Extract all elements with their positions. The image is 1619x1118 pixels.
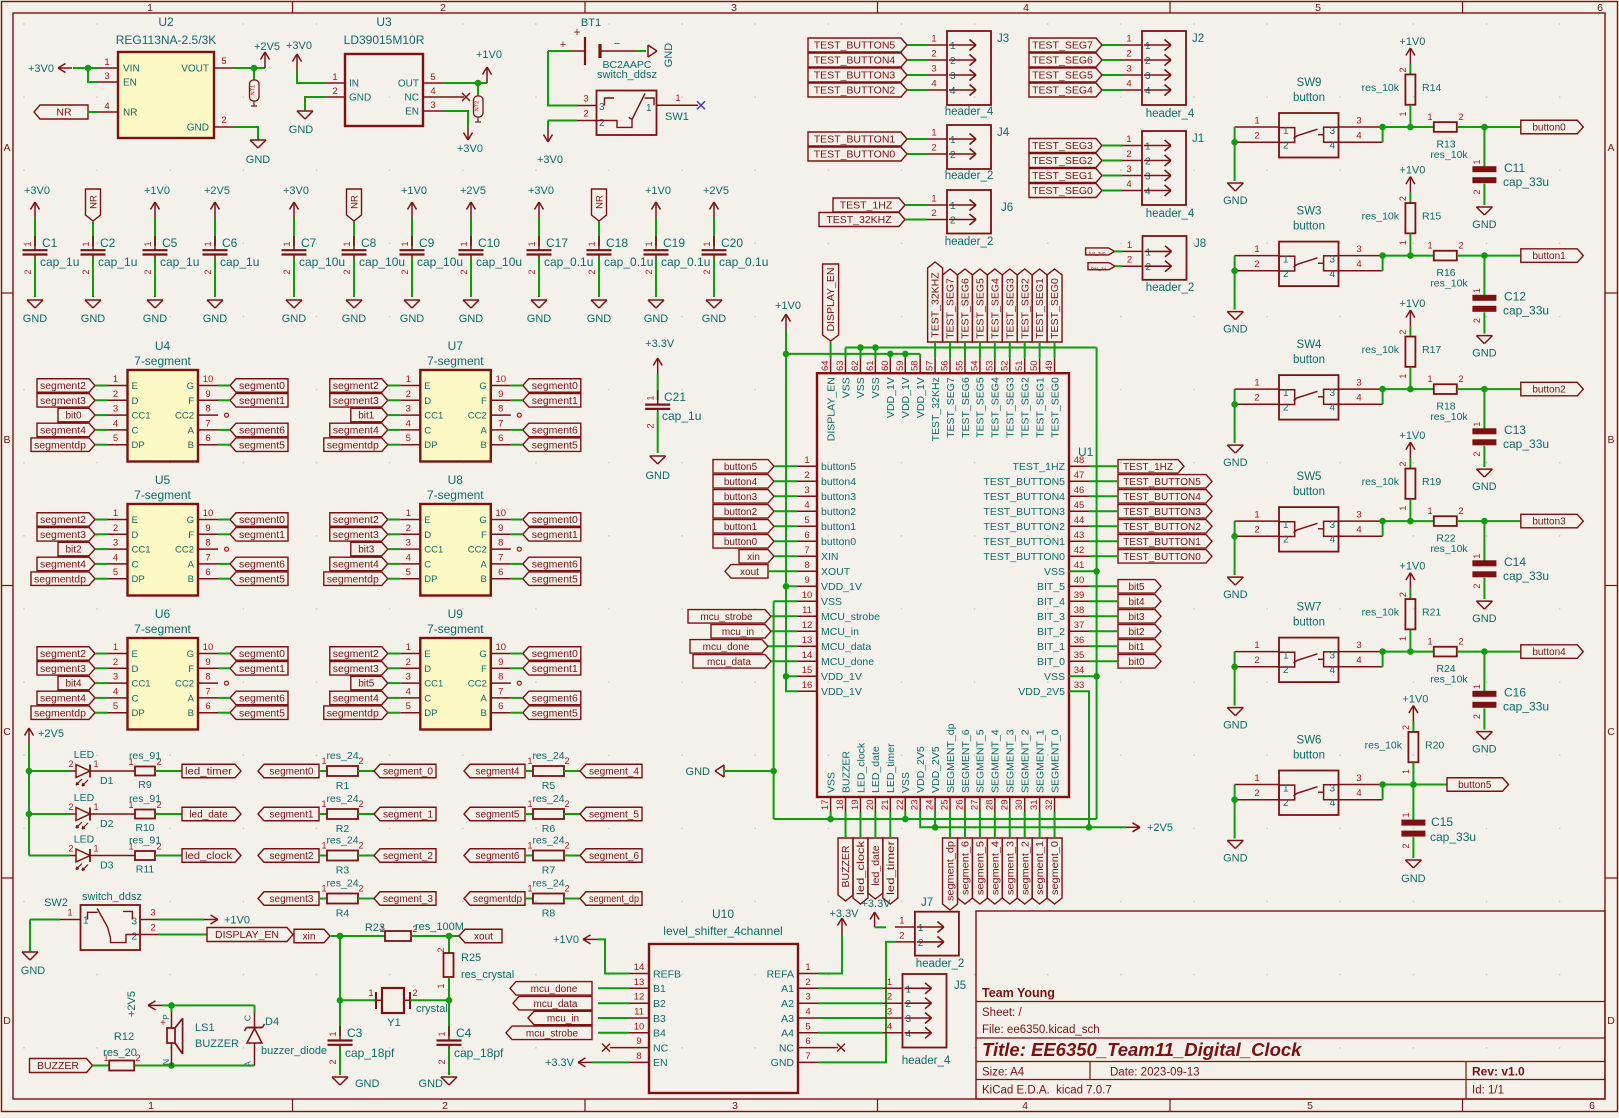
wire U1 to segment_5 bbox=[979, 812, 981, 838]
svg-text:10: 10 bbox=[496, 508, 507, 519]
svg-text:TEST_SEG2: TEST_SEG2 bbox=[1019, 278, 1031, 339]
svg-text:U5: U5 bbox=[155, 473, 171, 487]
ground at SW4 bbox=[1223, 445, 1248, 469]
global label xin bbox=[739, 550, 774, 564]
svg-text:3: 3 bbox=[805, 992, 810, 1003]
wire R16 to button1 bbox=[1457, 255, 1521, 257]
svg-text:2: 2 bbox=[804, 470, 809, 481]
svg-text:GND: GND bbox=[246, 154, 271, 166]
wire U1 to led_date bbox=[874, 812, 876, 838]
global label TEST_SEG3 bbox=[1029, 139, 1102, 153]
wire right VSS vertical bbox=[1096, 348, 1098, 820]
svg-text:segment5: segment5 bbox=[239, 440, 285, 451]
svg-text:+1V0: +1V0 bbox=[1399, 430, 1425, 442]
svg-text:switch_ddsz: switch_ddsz bbox=[82, 891, 142, 903]
svg-text:1: 1 bbox=[93, 844, 98, 854]
wire U3 NC no-connect bbox=[443, 93, 470, 101]
no-connect U10 pin6 bbox=[818, 1044, 845, 1052]
svg-text:segment4: segment4 bbox=[333, 560, 379, 571]
svg-text:bit0: bit0 bbox=[65, 411, 82, 422]
svg-text:DP: DP bbox=[132, 574, 145, 585]
global label button1 bbox=[713, 520, 774, 534]
svg-text:VDD_1V: VDD_1V bbox=[821, 686, 862, 698]
svg-text:+3.3V: +3.3V bbox=[861, 898, 891, 910]
resistor R12 res_20 bbox=[93, 1031, 141, 1071]
svg-text:REG113NA-2.5/3K: REG113NA-2.5/3K bbox=[116, 33, 217, 47]
svg-text:1: 1 bbox=[282, 241, 292, 246]
svg-text:NC: NC bbox=[405, 93, 419, 104]
svg-text:segment6: segment6 bbox=[532, 426, 578, 437]
svg-text:segment0: segment0 bbox=[532, 515, 578, 526]
svg-text:GND: GND bbox=[1472, 481, 1497, 493]
connector J6 header_2 bbox=[927, 190, 1013, 248]
svg-text:SW1: SW1 bbox=[665, 111, 689, 123]
svg-text:4: 4 bbox=[906, 1029, 912, 1040]
svg-text:60: 60 bbox=[880, 360, 891, 371]
svg-text:CC1: CC1 bbox=[132, 545, 151, 556]
resistor R10 res_91 bbox=[90, 793, 162, 834]
svg-text:A: A bbox=[243, 1061, 253, 1067]
ground arrow left of U1 bbox=[686, 765, 724, 778]
svg-text:Sheet: /: Sheet: / bbox=[982, 1007, 1022, 1019]
svg-text:1: 1 bbox=[675, 93, 680, 104]
svg-text:F: F bbox=[188, 396, 194, 407]
svg-text:segment6: segment6 bbox=[532, 560, 578, 571]
svg-text:TEST_BUTTON4: TEST_BUTTON4 bbox=[1123, 492, 1201, 503]
global label segment5 bbox=[464, 807, 525, 821]
svg-text:+3V0: +3V0 bbox=[286, 40, 312, 52]
svg-text:63: 63 bbox=[835, 360, 846, 371]
svg-text:segment5: segment5 bbox=[239, 574, 285, 585]
svg-text:2: 2 bbox=[599, 118, 605, 129]
svg-text:2: 2 bbox=[1145, 56, 1151, 67]
svg-text:8: 8 bbox=[498, 672, 503, 683]
svg-text:NR: NR bbox=[123, 108, 137, 119]
svg-text:2: 2 bbox=[1283, 535, 1289, 546]
wire U3 GND bbox=[305, 97, 325, 111]
svg-text:9: 9 bbox=[205, 389, 210, 400]
svg-text:9: 9 bbox=[205, 523, 210, 534]
svg-text:TEST_1HZ: TEST_1HZ bbox=[840, 200, 893, 212]
svg-text:button: button bbox=[1293, 750, 1325, 762]
svg-text:2: 2 bbox=[406, 523, 411, 534]
svg-text:GND: GND bbox=[644, 313, 669, 325]
global labels left of U7 bbox=[324, 379, 401, 452]
svg-text:2: 2 bbox=[950, 216, 956, 227]
svg-text:1: 1 bbox=[23, 241, 33, 246]
svg-text:1: 1 bbox=[1472, 159, 1482, 164]
svg-text:3: 3 bbox=[1329, 520, 1335, 531]
svg-text:res_10k: res_10k bbox=[1362, 344, 1400, 356]
wire mcu_data to U1 bbox=[771, 660, 797, 662]
svg-text:segment1: segment1 bbox=[532, 396, 578, 407]
svg-text:5: 5 bbox=[406, 701, 411, 712]
LED D2 bbox=[29, 792, 114, 830]
junction rail SW3 bbox=[1379, 252, 1413, 259]
svg-text:VSS: VSS bbox=[825, 772, 837, 793]
svg-text:2: 2 bbox=[1472, 189, 1482, 194]
svg-text:C19: C19 bbox=[663, 236, 685, 250]
svg-text:2: 2 bbox=[805, 977, 810, 988]
svg-text:4: 4 bbox=[430, 86, 435, 97]
svg-text:Title: EE6350_Team11_Digital_C: Title: EE6350_Team11_Digital_Clock bbox=[982, 1039, 1303, 1060]
pushbutton SW5 bbox=[1235, 471, 1383, 551]
svg-text:2: 2 bbox=[1458, 506, 1463, 516]
global labels left of U9 bbox=[324, 647, 401, 720]
svg-text:1: 1 bbox=[1146, 247, 1152, 258]
svg-text:led_date: led_date bbox=[870, 845, 882, 885]
svg-text:segment0: segment0 bbox=[239, 649, 285, 660]
global label TEST_SEG7 bbox=[1029, 38, 1102, 52]
resistor R22 res_10k bbox=[1427, 506, 1468, 555]
svg-text:25: 25 bbox=[940, 800, 951, 811]
wire R23 to xout bbox=[411, 935, 459, 937]
svg-text:2: 2 bbox=[150, 923, 155, 934]
svg-text:TEST_BUTTON3: TEST_BUTTON3 bbox=[984, 506, 1066, 518]
svg-text:4: 4 bbox=[113, 418, 118, 429]
svg-text:2: 2 bbox=[221, 115, 226, 126]
svg-text:button4: button4 bbox=[821, 476, 856, 488]
global label TEST_BUTTON3 at U1 bbox=[1118, 505, 1212, 519]
svg-text:3: 3 bbox=[1329, 126, 1335, 137]
LED D3 bbox=[29, 834, 114, 872]
svg-text:24: 24 bbox=[925, 800, 936, 811]
global label TEST_SEG0 vertical bbox=[1047, 269, 1062, 342]
global label button1 bbox=[1521, 249, 1584, 263]
svg-text:1: 1 bbox=[1126, 134, 1131, 145]
svg-text:2: 2 bbox=[68, 844, 73, 854]
svg-text:2: 2 bbox=[203, 269, 213, 274]
svg-text:1: 1 bbox=[400, 241, 410, 246]
svg-text:segment2: segment2 bbox=[270, 851, 314, 862]
svg-text:level_shifter_4channel: level_shifter_4channel bbox=[663, 924, 782, 938]
svg-text:J8: J8 bbox=[1194, 238, 1206, 250]
svg-text:segment_1: segment_1 bbox=[1034, 841, 1046, 895]
connector J1 header_4 bbox=[1122, 131, 1204, 220]
svg-text:1: 1 bbox=[1254, 640, 1259, 651]
svg-text:BIT_4: BIT_4 bbox=[1037, 596, 1065, 608]
svg-text:N: N bbox=[161, 1059, 171, 1065]
junction cap node SW3 bbox=[1481, 252, 1488, 259]
svg-text:SEGMENT_3: SEGMENT_3 bbox=[1005, 729, 1017, 793]
svg-text:TEST_BUTTON5: TEST_BUTTON5 bbox=[814, 40, 896, 52]
wire to J8 pin1 bbox=[1115, 250, 1123, 252]
pushbutton SW4 bbox=[1235, 339, 1383, 420]
svg-text:1: 1 bbox=[437, 1031, 447, 1036]
wire TEST_BUTTON2 bbox=[1089, 525, 1118, 527]
svg-text:C3: C3 bbox=[347, 1026, 363, 1040]
power +2V5 at LED rail bbox=[25, 728, 65, 744]
svg-text:header_4: header_4 bbox=[945, 106, 994, 118]
svg-text:17: 17 bbox=[820, 800, 831, 811]
svg-text:59: 59 bbox=[895, 360, 906, 371]
svg-text:50: 50 bbox=[1029, 360, 1040, 371]
svg-text:45: 45 bbox=[1074, 500, 1085, 511]
svg-text:NR: NR bbox=[89, 195, 100, 209]
wire SW9 left pins to ground bbox=[1234, 127, 1236, 181]
junction cap node SW5 bbox=[1481, 518, 1488, 525]
svg-text:1: 1 bbox=[406, 642, 411, 653]
7-segment display driver U6 bbox=[108, 607, 219, 730]
ground at C4 bbox=[419, 1077, 457, 1090]
global label TEST_BUTTON2 at U1 bbox=[1118, 520, 1212, 534]
resistor R5 res_24 bbox=[525, 750, 570, 792]
svg-text:VSS: VSS bbox=[870, 377, 882, 398]
svg-text:xin: xin bbox=[747, 552, 760, 563]
global label segment_6 bbox=[564, 849, 642, 863]
svg-text:D4: D4 bbox=[265, 1016, 279, 1028]
wire TEST_BUTTON0 to J4 bbox=[907, 153, 927, 155]
global label segment4 bbox=[464, 764, 525, 778]
svg-text:segment6: segment6 bbox=[239, 694, 285, 705]
svg-text:1: 1 bbox=[342, 241, 352, 246]
svg-text:LED_timer: LED_timer bbox=[885, 743, 897, 793]
svg-text:+1V0: +1V0 bbox=[775, 300, 801, 312]
svg-text:+1V0: +1V0 bbox=[1399, 36, 1425, 48]
svg-text:2: 2 bbox=[1458, 241, 1463, 251]
svg-text:10: 10 bbox=[496, 642, 507, 653]
svg-text:J3: J3 bbox=[997, 33, 1009, 45]
svg-text:TEST_SEG4: TEST_SEG4 bbox=[990, 377, 1002, 438]
svg-text:+2V5: +2V5 bbox=[460, 185, 486, 197]
svg-text:segment1: segment1 bbox=[239, 664, 285, 675]
svg-text:cap_0.1u: cap_0.1u bbox=[661, 255, 710, 269]
svg-text:1: 1 bbox=[1401, 812, 1411, 817]
svg-text:res_10k: res_10k bbox=[1362, 82, 1400, 94]
svg-text:DISPLAY_EN: DISPLAY_EN bbox=[215, 929, 279, 941]
svg-text:2: 2 bbox=[564, 884, 569, 894]
svg-text:segment0: segment0 bbox=[239, 515, 285, 526]
global labels left of U5 bbox=[31, 513, 108, 586]
svg-text:1: 1 bbox=[147, 2, 153, 14]
svg-text:TEST_BUTTON4: TEST_BUTTON4 bbox=[814, 55, 896, 67]
svg-text:1: 1 bbox=[1472, 554, 1482, 559]
svg-text:2: 2 bbox=[1458, 112, 1463, 122]
power +1V0 above R20 bbox=[1402, 694, 1428, 722]
svg-text:EN: EN bbox=[405, 107, 419, 118]
global label TEST_BUTTON1 bbox=[808, 132, 907, 146]
svg-text:4: 4 bbox=[931, 79, 936, 90]
svg-text:segment1: segment1 bbox=[239, 530, 285, 541]
wire SW4 left pins to ground bbox=[1234, 389, 1236, 443]
svg-text:1: 1 bbox=[1398, 636, 1408, 641]
svg-text:CC2: CC2 bbox=[468, 545, 487, 556]
svg-text:bit0: bit0 bbox=[1128, 657, 1145, 668]
svg-text:20: 20 bbox=[865, 800, 876, 811]
resistor R14 res_10k vertical bbox=[1362, 64, 1442, 127]
svg-text:2: 2 bbox=[906, 999, 912, 1010]
svg-text:header_4: header_4 bbox=[1146, 108, 1195, 120]
global label TEST_SEG1 bbox=[1029, 169, 1102, 183]
svg-text:2: 2 bbox=[564, 756, 569, 766]
svg-text:1: 1 bbox=[1472, 684, 1482, 689]
svg-text:segment4: segment4 bbox=[40, 426, 86, 437]
svg-text:47: 47 bbox=[1074, 470, 1085, 481]
svg-text:5: 5 bbox=[804, 515, 809, 526]
capacitor C15 cap_33u bbox=[1401, 785, 1476, 859]
svg-text:segment_6: segment_6 bbox=[960, 841, 972, 895]
svg-text:A: A bbox=[480, 693, 487, 704]
svg-text:bit1: bit1 bbox=[358, 411, 375, 422]
capacitor C6 cap_1u bbox=[203, 185, 260, 325]
svg-text:res_24: res_24 bbox=[532, 793, 564, 805]
wire +2V5 to buzzer top bbox=[162, 1004, 172, 1006]
svg-text:2: 2 bbox=[282, 269, 292, 274]
svg-text:2: 2 bbox=[931, 49, 936, 60]
global label bat_1v (small) bbox=[1088, 263, 1115, 271]
svg-text:segment4: segment4 bbox=[40, 560, 86, 571]
resistor R11 res_91 bbox=[90, 835, 162, 876]
title block bbox=[976, 911, 1605, 1099]
svg-text:R7: R7 bbox=[542, 865, 556, 877]
svg-text:segment3: segment3 bbox=[333, 396, 379, 407]
svg-text:GND: GND bbox=[527, 313, 552, 325]
global label segment_4 bbox=[564, 764, 642, 778]
diode D4 buzzer_diode bbox=[172, 1005, 328, 1066]
svg-text:SW7: SW7 bbox=[1297, 602, 1322, 614]
svg-text:−: − bbox=[614, 38, 620, 50]
svg-text:GND: GND bbox=[686, 766, 711, 778]
svg-text:2: 2 bbox=[437, 1059, 447, 1064]
svg-text:mcu_done: mcu_done bbox=[531, 984, 578, 995]
svg-text:VDD_2V5: VDD_2V5 bbox=[915, 746, 927, 793]
capacitor C19 cap_0.1u bbox=[644, 185, 711, 325]
svg-text:cap_33u: cap_33u bbox=[1430, 830, 1476, 844]
resistor R21 res_10k vertical bbox=[1362, 589, 1442, 652]
svg-text:6: 6 bbox=[498, 701, 503, 712]
junction U2 VIN bbox=[85, 65, 92, 72]
svg-text:segment2: segment2 bbox=[40, 515, 86, 526]
svg-text:D: D bbox=[3, 1015, 11, 1027]
global label NR at U2 bbox=[34, 105, 88, 119]
global label segment0 bbox=[258, 764, 319, 778]
svg-text:3: 3 bbox=[1356, 116, 1361, 127]
svg-text:1: 1 bbox=[81, 241, 91, 246]
global label segment_1 bbox=[358, 807, 436, 821]
svg-text:VDD_1V: VDD_1V bbox=[821, 581, 862, 593]
svg-text:26: 26 bbox=[954, 800, 965, 811]
svg-text:4: 4 bbox=[1356, 788, 1361, 799]
svg-text:segment0: segment0 bbox=[239, 381, 285, 392]
svg-text:+3.3V: +3.3V bbox=[645, 338, 675, 350]
svg-text:+1V0: +1V0 bbox=[224, 915, 250, 927]
svg-text:4: 4 bbox=[1126, 179, 1131, 190]
pushbutton SW6 bbox=[1235, 735, 1383, 816]
svg-text:7: 7 bbox=[805, 1051, 810, 1062]
wire SW2 pin3 to +1V0 bbox=[158, 915, 250, 927]
svg-text:7: 7 bbox=[804, 545, 809, 556]
global label xin bbox=[294, 929, 330, 943]
svg-text:Rev: v1.0: Rev: v1.0 bbox=[1472, 1065, 1525, 1079]
svg-text:3: 3 bbox=[113, 672, 118, 683]
regulator U2 REG113NA-2.5/3K bbox=[98, 15, 234, 138]
svg-text:2: 2 bbox=[440, 2, 446, 14]
svg-text:mcu_data: mcu_data bbox=[534, 999, 578, 1010]
svg-text:R3: R3 bbox=[336, 865, 350, 877]
svg-text:button3: button3 bbox=[1532, 517, 1566, 528]
svg-text:R5: R5 bbox=[542, 780, 556, 792]
svg-text:3: 3 bbox=[731, 2, 737, 14]
svg-text:VOUT: VOUT bbox=[181, 64, 209, 75]
7-segment display driver U7 bbox=[400, 339, 511, 462]
svg-text:2: 2 bbox=[113, 523, 118, 534]
wire pin34 VSS bbox=[1069, 675, 1097, 677]
svg-text:REFA: REFA bbox=[767, 968, 794, 980]
global label bat_3v0 (small) bbox=[1086, 248, 1115, 256]
svg-text:SEGMENT_5: SEGMENT_5 bbox=[975, 729, 987, 793]
svg-text:3: 3 bbox=[1126, 64, 1131, 75]
svg-text:1: 1 bbox=[887, 977, 892, 988]
svg-text:BIT_1: BIT_1 bbox=[1037, 641, 1065, 653]
svg-text:C: C bbox=[1607, 726, 1615, 738]
svg-text:C8: C8 bbox=[361, 236, 377, 250]
svg-text:2: 2 bbox=[1458, 374, 1463, 384]
capacitor C4 cap_18pf bbox=[437, 1000, 505, 1075]
svg-text:4: 4 bbox=[1356, 131, 1361, 142]
7-segment display driver U8 bbox=[400, 473, 511, 596]
svg-text:cap_0.1u: cap_0.1u bbox=[604, 255, 653, 269]
svg-text:12: 12 bbox=[802, 620, 813, 631]
svg-text:1: 1 bbox=[1254, 378, 1259, 389]
svg-text:TEST_SEG6: TEST_SEG6 bbox=[960, 377, 972, 438]
svg-text:E: E bbox=[424, 649, 430, 660]
svg-text:TEST_BUTTON3: TEST_BUTTON3 bbox=[814, 70, 896, 82]
svg-text:3: 3 bbox=[732, 1100, 738, 1112]
svg-text:3: 3 bbox=[583, 94, 588, 105]
LED D1 bbox=[29, 749, 114, 787]
global label TEST_BUTTON0 at U1 bbox=[1118, 550, 1212, 564]
wire TEST_SEG0 to J1 bbox=[1102, 190, 1122, 192]
svg-text:6: 6 bbox=[205, 567, 210, 578]
svg-text:4: 4 bbox=[1329, 798, 1335, 809]
svg-text:BIT_2: BIT_2 bbox=[1037, 626, 1065, 638]
global label mcu_data bbox=[693, 655, 771, 669]
svg-text:4: 4 bbox=[1145, 86, 1151, 97]
svg-text:R23: R23 bbox=[365, 922, 385, 934]
svg-text:54: 54 bbox=[969, 360, 980, 371]
svg-text:segment4: segment4 bbox=[40, 694, 86, 705]
svg-text:res_24: res_24 bbox=[326, 835, 358, 847]
svg-text:header_2: header_2 bbox=[945, 236, 994, 248]
svg-text:+2V5: +2V5 bbox=[254, 41, 280, 53]
junction xout node bbox=[446, 933, 453, 940]
svg-text:segment_5: segment_5 bbox=[589, 810, 639, 821]
svg-text:segment5: segment5 bbox=[532, 708, 578, 719]
svg-text:GND: GND bbox=[1223, 324, 1248, 336]
svg-text:File: ee6350.kicad_sch: File: ee6350.kicad_sch bbox=[982, 1024, 1100, 1036]
svg-text:TEST_1HZ: TEST_1HZ bbox=[1123, 462, 1173, 473]
svg-text:1: 1 bbox=[113, 508, 118, 519]
svg-text:4: 4 bbox=[104, 101, 109, 112]
svg-text:bit5: bit5 bbox=[358, 679, 375, 690]
svg-text:TEST_SEG4: TEST_SEG4 bbox=[1032, 85, 1093, 97]
svg-text:bit1: bit1 bbox=[1128, 642, 1145, 653]
svg-text:res_10k: res_10k bbox=[1430, 278, 1468, 290]
svg-text:34: 34 bbox=[1074, 665, 1085, 676]
global label bit5 bbox=[1118, 580, 1161, 594]
battery BT1 BC2AAPC bbox=[560, 17, 652, 71]
svg-text:TEST_1HZ: TEST_1HZ bbox=[1012, 461, 1065, 473]
ground at C14 bbox=[1472, 601, 1497, 625]
svg-text:segment5: segment5 bbox=[532, 574, 578, 585]
svg-text:7: 7 bbox=[498, 552, 503, 563]
wire TEST_SEG5 to J2 bbox=[1102, 74, 1122, 76]
svg-text:cap_1u: cap_1u bbox=[40, 255, 79, 269]
svg-text:C18: C18 bbox=[606, 236, 628, 250]
svg-text:62: 62 bbox=[850, 360, 861, 371]
svg-text:3: 3 bbox=[1145, 172, 1151, 183]
svg-text:G: G bbox=[479, 381, 486, 392]
